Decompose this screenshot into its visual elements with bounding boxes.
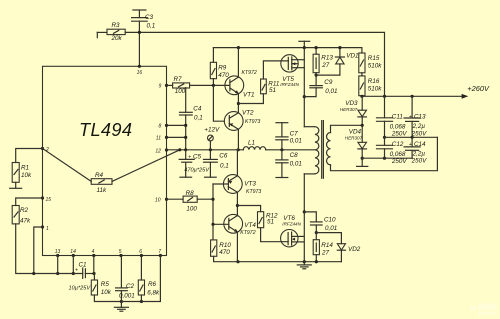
wire R3 left open terminal tick: [96, 32, 98, 37]
transistor Q VT3 KT973: [223, 175, 242, 194]
svg-text:C6: C6: [219, 153, 228, 160]
node pin1 bus: [32, 272, 35, 275]
transformer T1 primary: [304, 126, 315, 128]
svg-text:470: 470: [218, 72, 229, 79]
pin 4: [92, 254, 95, 257]
base column VT3/VT4: [212, 184, 214, 240]
transformer T1 secondary: [327, 132, 331, 164]
svg-text:VT2: VT2: [242, 110, 254, 117]
wire R5 bottom: [94, 295, 121, 302]
open terminal tab above rail: [299, 40, 310, 42]
svg-text:7: 7: [158, 249, 161, 255]
R1 open terminal: [15, 182, 17, 188]
svg-text:R6: R6: [148, 281, 157, 288]
pin 9: [165, 84, 168, 87]
svg-text:+12V: +12V: [204, 127, 220, 134]
svg-text:13: 13: [55, 249, 61, 255]
svg-text:5: 5: [119, 249, 122, 255]
resistor R10: [211, 240, 217, 256]
svg-text:0,1: 0,1: [194, 115, 203, 122]
resistor R16: [361, 73, 363, 76]
svg-text:100: 100: [186, 205, 197, 212]
svg-text:0,01: 0,01: [325, 225, 337, 232]
wire pin15 to R2: [16, 198, 43, 206]
svg-text:C9: C9: [324, 79, 333, 86]
pin 12: [165, 148, 168, 151]
resistor R15: [361, 48, 363, 53]
svg-text:C7: C7: [290, 130, 299, 137]
+260V rail: [362, 95, 462, 97]
transistor Q VT4 KT972: [224, 214, 243, 233]
svg-text:VD1: VD1: [346, 52, 358, 59]
svg-text:250V: 250V: [411, 157, 428, 164]
ground symbol at VT6: [303, 262, 305, 265]
svg-text:11k: 11k: [97, 187, 108, 194]
wire secondary top lead: [331, 125, 363, 132]
diode VD2: [316, 233, 341, 244]
capacitor C12: [384, 137, 386, 145]
svg-text:C4: C4: [193, 106, 202, 113]
wire VT5 drain column: [303, 48, 305, 127]
svg-text:10k: 10k: [21, 172, 32, 179]
resistor R5: [93, 274, 95, 281]
capacitor C1 electrolytic: [82, 268, 84, 278]
SECTION: left inputs: [10, 149, 180, 274]
svg-text:2,2µ: 2,2µ: [412, 123, 426, 130]
wire pin8: [167, 124, 186, 126]
svg-text:+: +: [409, 142, 412, 148]
svg-text:C5: C5: [193, 154, 202, 161]
svg-text:TL494: TL494: [79, 120, 132, 140]
resistor R1: [12, 163, 19, 183]
pin 15: [41, 196, 44, 199]
svg-text:100: 100: [175, 88, 186, 95]
node B rail: [362, 157, 412, 159]
svg-text:510k: 510k: [368, 62, 383, 69]
capacitor C8: [281, 150, 283, 160]
svg-text:R5: R5: [101, 281, 110, 288]
wire pin14 stub: [72, 256, 74, 274]
svg-text:R15: R15: [368, 55, 380, 62]
wire R2 bottom to bus: [16, 224, 34, 274]
svg-text:R16: R16: [368, 78, 380, 85]
diode VD4 HER307: [358, 142, 367, 148]
svg-text:R3: R3: [112, 22, 121, 29]
svg-text:510k: 510k: [368, 85, 383, 92]
transistor Q VT1 KT972: [225, 76, 244, 95]
wire pin11: [167, 136, 186, 138]
pin 10: [165, 198, 168, 201]
transistor Q VT2 KT973: [224, 112, 243, 131]
wire pin12 +12V rail to transformer tap: [167, 149, 244, 151]
svg-text:27: 27: [321, 62, 330, 69]
capacitor C3: [133, 9, 146, 11]
svg-text:6: 6: [139, 249, 142, 255]
svg-text:0,068: 0,068: [390, 123, 406, 130]
svg-text:HER307: HER307: [345, 136, 363, 141]
svg-text:10µ*25V: 10µ*25V: [69, 285, 92, 291]
resistor R11: [238, 94, 263, 104]
pin 16: [138, 65, 141, 68]
wire pin1 down: [34, 227, 43, 274]
svg-text:C10: C10: [324, 217, 336, 224]
svg-text:VT3: VT3: [244, 181, 256, 188]
svg-text:250V: 250V: [391, 130, 408, 137]
svg-text:C1: C1: [79, 261, 87, 268]
transistor VT6 IRFZ44N: [281, 230, 298, 247]
svg-text:L1: L1: [248, 140, 255, 147]
svg-text:VD2: VD2: [348, 246, 361, 253]
resistor R9: [212, 48, 214, 63]
svg-text:470µ*25V: 470µ*25V: [184, 168, 210, 174]
svg-text:4: 4: [92, 249, 95, 255]
svg-text:+260V: +260V: [467, 84, 490, 93]
svg-text:VT4: VT4: [244, 222, 256, 229]
capacitor C11: [384, 96, 386, 118]
svg-text:47k: 47k: [20, 217, 31, 224]
SECTION: driver: [167, 46, 362, 263]
wire secondary bottom lead: [331, 137, 438, 170]
svg-text:0,1: 0,1: [220, 163, 229, 170]
svg-text:R9: R9: [218, 64, 227, 71]
svg-text:C8: C8: [290, 152, 299, 159]
diode VD1: [316, 74, 340, 76]
svg-text:10: 10: [155, 198, 161, 204]
svg-text:VT1: VT1: [243, 92, 255, 99]
SECTION: output: [340, 48, 497, 315]
svg-text:250V: 250V: [411, 130, 428, 137]
svg-text:IRFZ44N: IRFZ44N: [280, 82, 299, 87]
transformer core: [321, 121, 323, 179]
svg-text:HER307: HER307: [340, 107, 358, 112]
svg-text:250V: 250V: [391, 158, 408, 165]
resistor R3: [107, 29, 125, 34]
pin 7: [159, 254, 162, 257]
capacitor C5 electrolytic: [185, 150, 187, 160]
resistor R4 with diagonal wires from pin2 to pin12 line: [43, 149, 92, 182]
svg-text:R4: R4: [95, 172, 104, 179]
svg-text:+: +: [75, 268, 78, 274]
svg-text:C14: C14: [414, 141, 426, 148]
svg-text:12: 12: [155, 149, 161, 155]
SECTION: IC: [41, 65, 168, 257]
SECTION: bottom RC: [32, 256, 160, 312]
wire feedback top rail: [125, 32, 384, 96]
svg-text:+: +: [409, 114, 412, 120]
pin 14: [72, 254, 75, 257]
watermark: [470, 304, 497, 316]
capacitor C4: [185, 88, 187, 113]
svg-text:16: 16: [137, 70, 143, 76]
svg-text:6,8k: 6,8k: [147, 290, 160, 297]
transistor VT5 IRFZ44N: [281, 55, 298, 72]
wire to pin 16: [138, 32, 140, 66]
capacitor C10: [304, 212, 316, 222]
svg-text:KT972: KT972: [242, 70, 257, 76]
svg-text:11: 11: [156, 136, 161, 142]
diode VD3 HER307: [361, 96, 363, 110]
pin 2: [41, 147, 44, 150]
capacitor C14 electrolytic: [411, 137, 413, 147]
wire bus to C1: [34, 273, 83, 275]
pin 1: [41, 225, 44, 228]
pin 8: [165, 124, 168, 127]
svg-text:R13: R13: [321, 54, 333, 61]
mid rail: [385, 136, 438, 138]
wire R4 to pin12 node: [112, 150, 180, 182]
resistor R13: [315, 48, 317, 55]
svg-text:0,01: 0,01: [325, 88, 337, 95]
capacitor C7: [276, 122, 288, 124]
svg-text:0,1: 0,1: [147, 23, 156, 30]
wire VT6 drain column: [303, 174, 305, 262]
svg-text:8: 8: [159, 124, 162, 130]
resistor R6: [140, 256, 142, 281]
node junction C3/R3: [138, 31, 141, 34]
resistor R12: [237, 206, 260, 212]
svg-text:R2: R2: [20, 207, 29, 214]
svg-text:9: 9: [159, 84, 162, 90]
svg-text:IRFZ44N: IRFZ44N: [282, 221, 301, 226]
resistor R14: [315, 233, 317, 240]
svg-text:R7: R7: [174, 76, 183, 83]
SECTION: transformer: [276, 121, 438, 179]
wire pin2 to R1: [16, 149, 43, 163]
svg-text:51: 51: [267, 219, 274, 226]
SECTION: top-left feedback: [97, 10, 384, 96]
svg-text:0,01: 0,01: [290, 138, 302, 145]
svg-text:10k: 10k: [101, 289, 112, 296]
svg-text:KT973: KT973: [246, 189, 261, 195]
capacitor C13 electrolytic: [411, 96, 413, 118]
svg-text:0,001: 0,001: [119, 292, 135, 299]
svg-text:14: 14: [70, 249, 76, 255]
resistor R7: [167, 84, 173, 86]
op-amp U1 TL494 body: [43, 66, 167, 255]
pin 11: [165, 136, 168, 139]
resistor R8: [167, 198, 184, 200]
ground wire bottom: [238, 261, 341, 263]
svg-text:R1: R1: [21, 165, 29, 172]
pin 13: [56, 254, 59, 257]
resistor R2: [12, 206, 19, 224]
svg-text:C12: C12: [392, 141, 404, 148]
svg-text:KT973: KT973: [245, 119, 260, 125]
svg-text:+: +: [188, 154, 191, 160]
svg-text:27: 27: [321, 249, 330, 256]
svg-text:0,068: 0,068: [390, 151, 406, 158]
svg-text:C13: C13: [414, 114, 426, 121]
ground: [120, 302, 122, 308]
SECTION: mosfets: [280, 41, 360, 268]
svg-text:C11: C11: [392, 114, 403, 121]
svg-text:51: 51: [269, 87, 276, 94]
capacitor C9: [315, 75, 317, 86]
svg-text:C3: C3: [145, 14, 154, 21]
top rail: [213, 47, 362, 49]
svg-text:15: 15: [46, 197, 52, 203]
wire pin4 stub: [93, 256, 95, 274]
svg-text:R14: R14: [321, 242, 333, 249]
svg-text:KT972: KT972: [240, 230, 255, 236]
svg-text:VD4: VD4: [349, 128, 362, 135]
svg-text:20k: 20k: [111, 35, 123, 42]
wire R7 to bases node: [190, 84, 230, 86]
svg-text:470: 470: [219, 249, 230, 256]
svg-text:1: 1: [46, 226, 49, 232]
svg-text:C2: C2: [126, 283, 135, 290]
wire C1 to pin4 node: [85, 273, 94, 275]
wire pin13 stub: [57, 256, 59, 274]
open terminal below VD4: [361, 158, 363, 166]
svg-text:0,01: 0,01: [290, 161, 302, 168]
capacitor C2: [120, 256, 122, 288]
svg-text:VD3: VD3: [345, 100, 358, 107]
pin 5: [119, 254, 122, 257]
capacitor C6: [209, 150, 211, 160]
wire pin7 down and bottom bus: [121, 256, 160, 302]
inductor L1: [243, 147, 265, 150]
svg-text:R8: R8: [186, 190, 195, 197]
pin 6: [140, 254, 143, 257]
wire R3 left lead: [97, 31, 107, 33]
